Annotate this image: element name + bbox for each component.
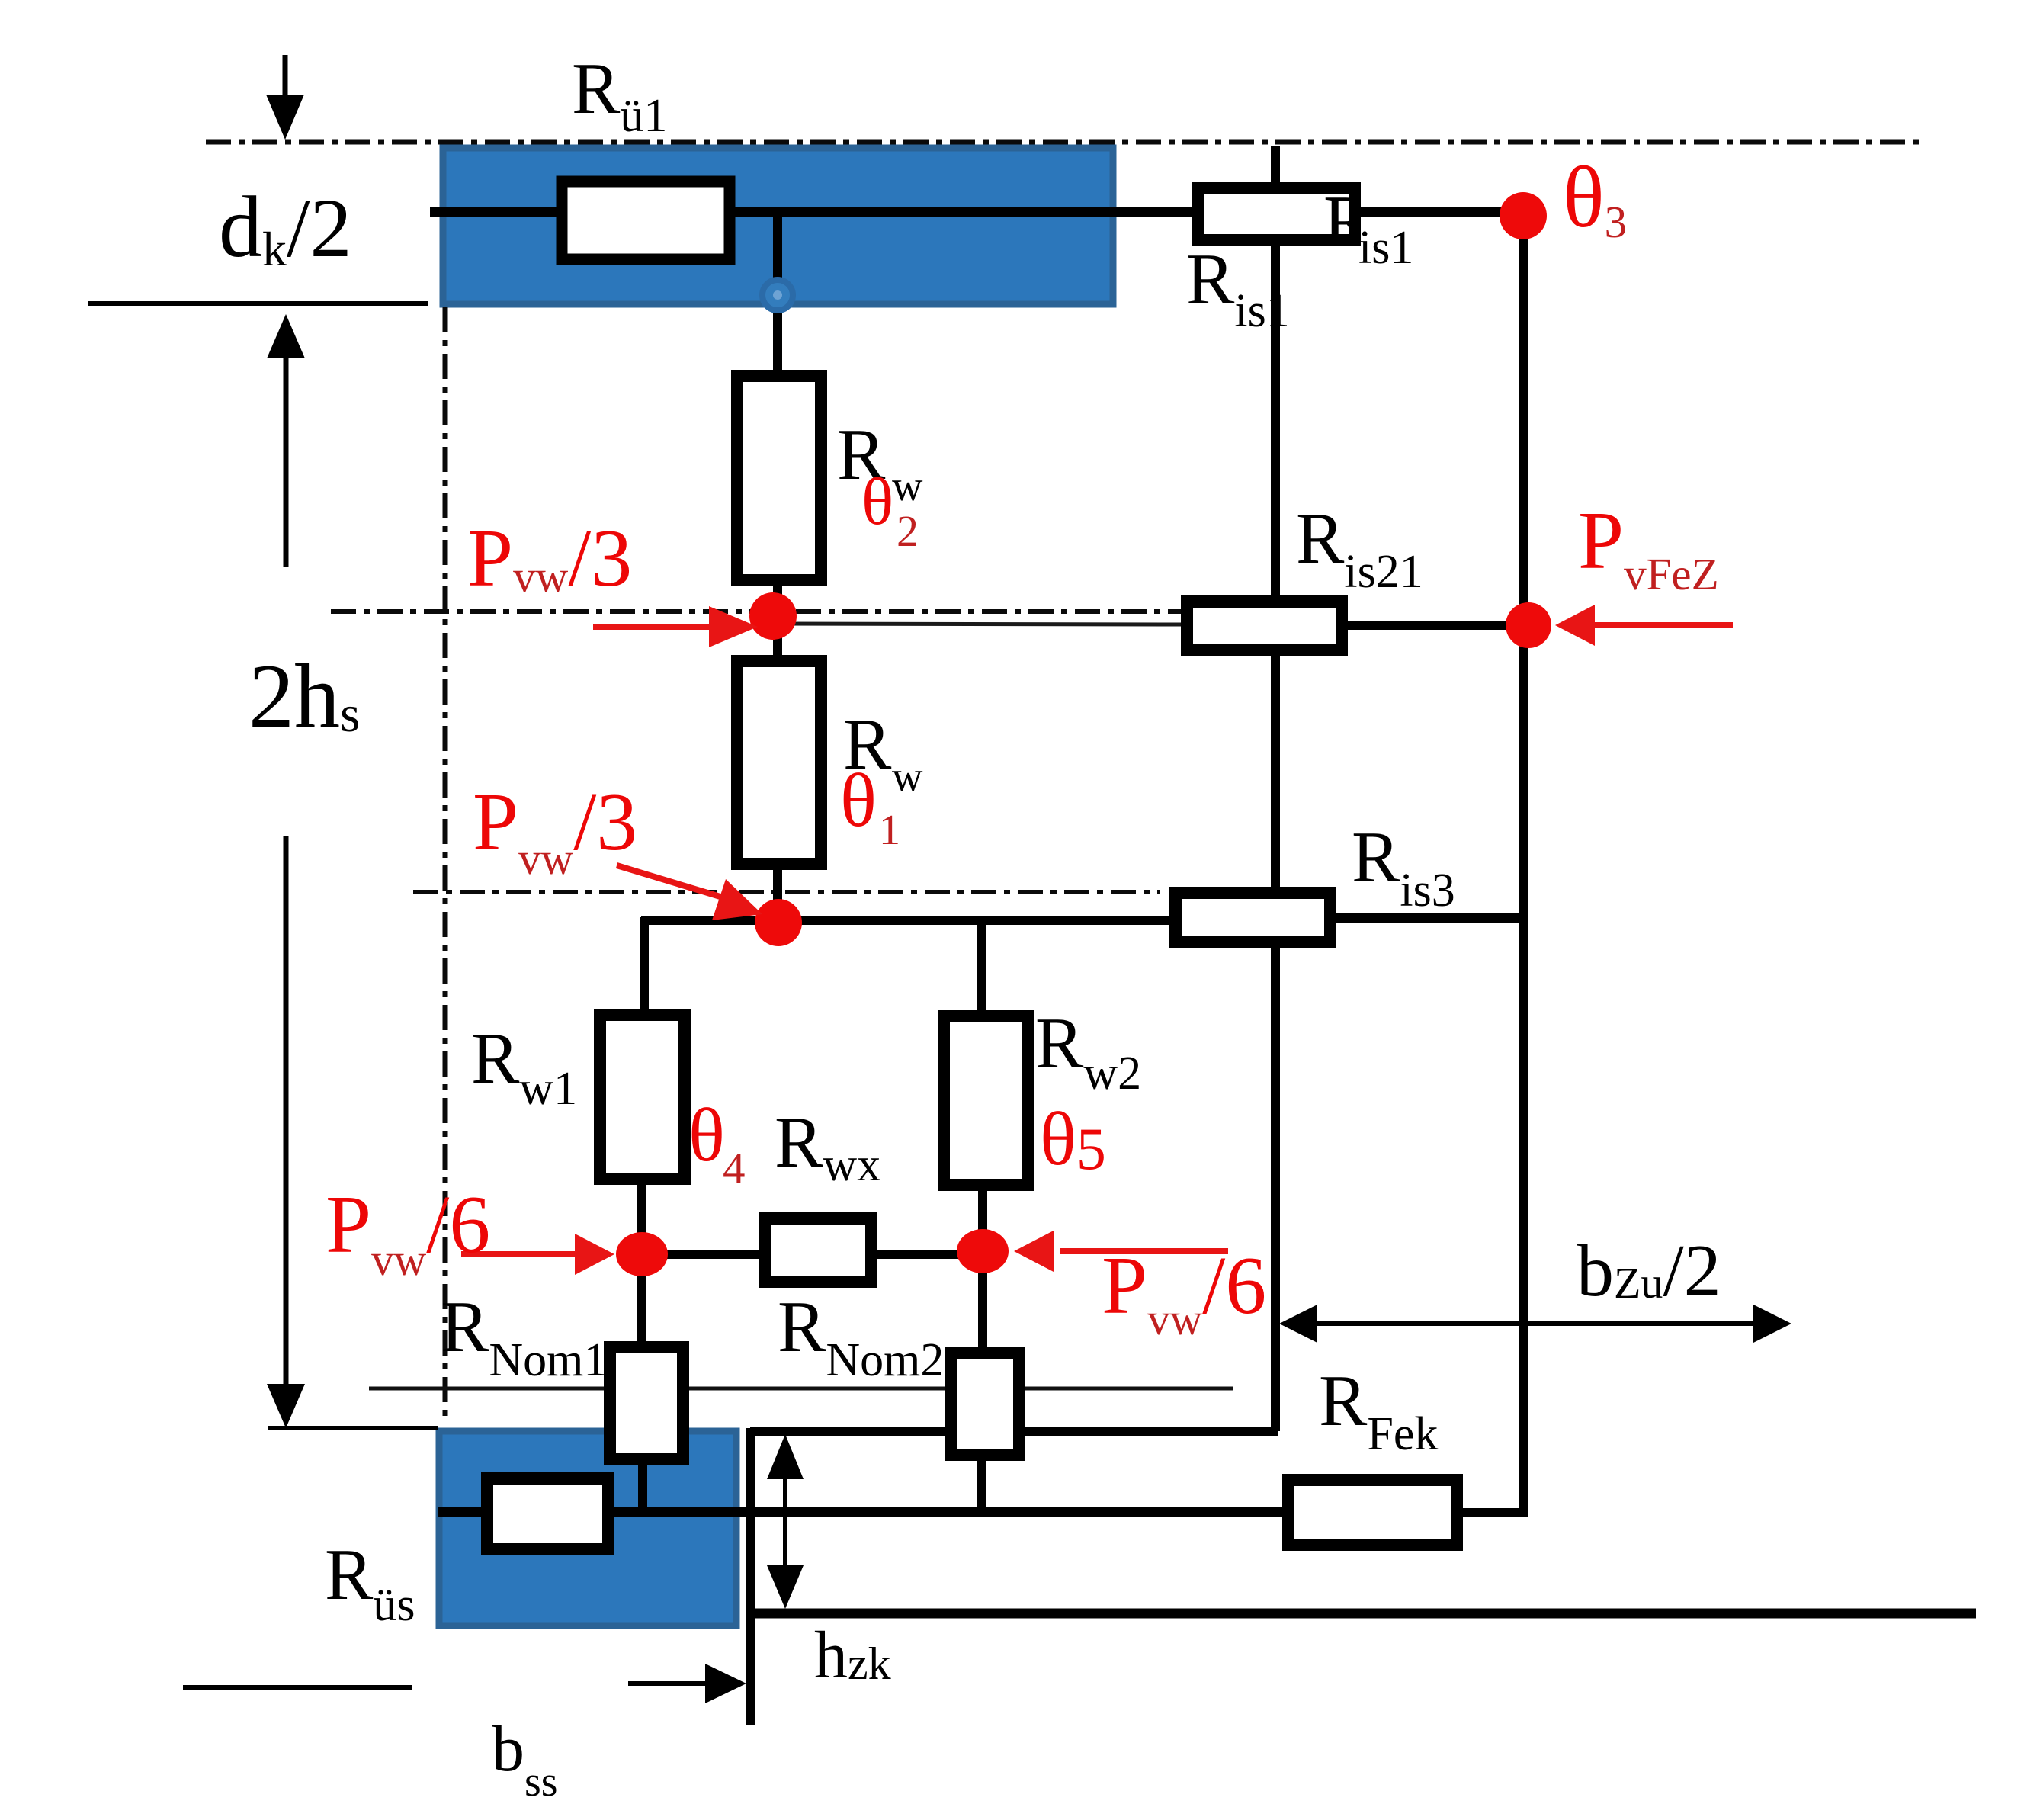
vertical dash-dot slot centerline: [443, 307, 448, 1424]
dimension arrow 2h_s (down): [284, 836, 289, 1389]
wire: Rüs right lead to RFek to right bus: [610, 1507, 1288, 1517]
dimension arrow 2h_s (up): [267, 314, 305, 358]
dimension arrow b_Zu/2: [1288, 1321, 1784, 1326]
node4: [957, 1229, 1009, 1273]
arrow P_vw/6 right: [1060, 1248, 1228, 1254]
node1 theta2 junction: [749, 592, 797, 640]
wire: RNom1 stub down: [638, 1462, 647, 1513]
resistor R_ü1: [562, 181, 730, 259]
arrow P_vFeZ: [1590, 622, 1733, 628]
svg-text:θ: θ: [688, 1093, 725, 1177]
resistor R_Nom1: [610, 1347, 683, 1459]
dash-dot line at node theta1 level: [413, 890, 1160, 894]
resistor R_w2: [944, 1016, 1028, 1185]
resistor R_wx: [765, 1218, 871, 1282]
svg-text:1: 1: [879, 807, 900, 854]
resistor R_w1: [600, 1015, 685, 1179]
svg-text:θ: θ: [840, 758, 877, 843]
dimension arrow b_ss: [628, 1681, 709, 1686]
dimension arrow d_k/2: [283, 55, 288, 99]
wire: branch down to Rw2: [977, 917, 986, 1013]
arrow P_vw/6 left: [461, 1251, 579, 1257]
wire: thin node1 to Ris21: [773, 624, 1181, 624]
wire: node2 right arm to Ris3: [778, 916, 1169, 925]
dash-dot line at node theta2 level: [331, 609, 1181, 614]
resistor R_is21: [1187, 602, 1342, 650]
resistor R_Fek: [1288, 1480, 1457, 1545]
wire: top horizontal main: [430, 207, 1523, 217]
wire: Rw2 bottom through node4 to RNom2: [978, 1188, 987, 1350]
resistor R_üs: [487, 1478, 608, 1549]
svg-text:4: 4: [723, 1143, 746, 1193]
conductor bar (blue, top winding overhang region): [443, 148, 1113, 304]
b_ss baseline left: [183, 1685, 412, 1690]
wire: node2 left arm: [641, 916, 778, 925]
stator surface line top-left: [88, 301, 428, 306]
wire: center vertical bus: [773, 212, 782, 923]
centerline rotor-axis dash-dot: [206, 140, 1926, 145]
conductor bar (blue, bottom R_üs region): [439, 1431, 736, 1626]
resistor R_is1: [1198, 181, 1413, 274]
slot wall vertical line: [746, 1428, 755, 1725]
wire: RNom2 stub down: [977, 1458, 986, 1514]
svg-text:is1: is1: [1358, 222, 1413, 274]
resistor R_is3: [1176, 893, 1330, 942]
wire: node3 to Rwx: [642, 1250, 762, 1259]
thin stator line through RNom row: [369, 1387, 1233, 1391]
junction circle on bar: [762, 280, 793, 310]
dimension arrow h_zk: [783, 1449, 787, 1597]
resistor R_Nom2: [951, 1353, 1019, 1455]
wire: left insulation bus: [1271, 146, 1280, 1431]
node2 theta1 junction: [755, 899, 802, 946]
wire: Rw1 bottom through node3 to RNom1: [637, 1182, 646, 1346]
bottom stator yoke line: [750, 1609, 1976, 1619]
short slot-bottom line left: [268, 1426, 438, 1430]
wire: Rüs left lead: [438, 1507, 488, 1517]
node3: [616, 1232, 668, 1276]
arrow P_vw/3 upper: [593, 624, 713, 630]
wire: node2 down to Rw1: [640, 917, 649, 1012]
wire: Ris21 to PvFeZ node: [1348, 621, 1528, 630]
node theta3: [1500, 192, 1547, 239]
svg-text:w: w: [892, 753, 923, 801]
wire: right iron bus: [1519, 216, 1528, 1517]
arrow P_vw/3 lower (diagonal): [617, 865, 723, 897]
slot top line: [750, 1427, 1278, 1436]
svg-text:w: w: [892, 463, 923, 510]
wire: Rwx to node4: [875, 1250, 983, 1259]
svg-text:θ: θ: [861, 465, 893, 539]
node P_vFeZ: [1506, 602, 1551, 648]
resistor R_w theta2: [737, 376, 821, 580]
svg-text:2: 2: [897, 506, 919, 556]
resistor R_w theta1: [737, 661, 821, 864]
wire: Ris3 to right bus: [1336, 913, 1523, 923]
